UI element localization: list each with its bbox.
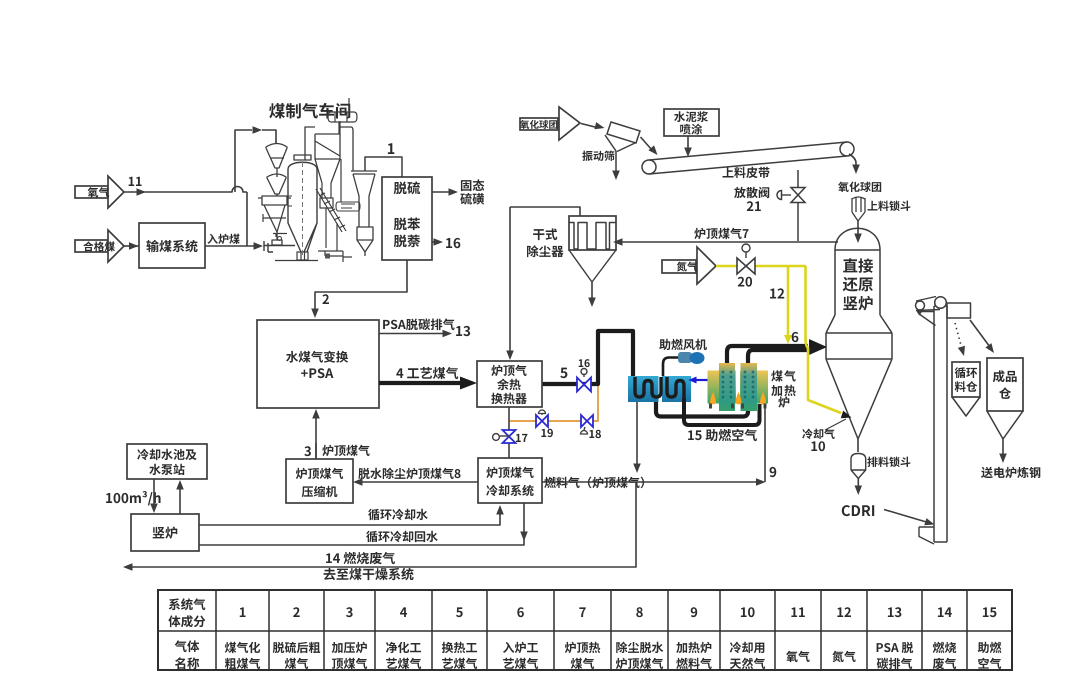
lock hopper 排料锁斗	[851, 454, 866, 479]
label 入炉煤	[207, 234, 239, 244]
label 放散阀	[734, 187, 769, 198]
table grid	[158, 590, 1012, 670]
box 炉顶气余热换热器	[477, 361, 542, 407]
wire hopper to furnace	[857, 221, 859, 236]
label 循环冷却水	[368, 509, 428, 520]
wire nitrogen yellow	[716, 265, 806, 268]
title 煤制气车间	[269, 103, 350, 119]
wire fuel gas 9	[542, 481, 758, 483]
wire 成品仓 out	[1002, 439, 1004, 456]
wire screen to belt	[641, 137, 653, 150]
label 氧化球团 right	[838, 182, 881, 192]
wire blue air arrow	[695, 379, 708, 381]
gasifier top drum	[328, 98, 357, 134]
label 3 炉顶煤气	[304, 446, 311, 456]
wire dust collector outlet down	[509, 207, 511, 352]
wire slurry to belt	[687, 136, 689, 151]
heater feet	[709, 404, 712, 409]
box 脱硫脱苯脱萘	[382, 177, 432, 260]
wire 13 PSA vent	[379, 333, 445, 335]
gasifier small ticks bottom-left	[263, 214, 287, 237]
vibrating screen 振动筛	[607, 122, 640, 143]
label 送电炉炼钢	[981, 467, 1040, 478]
pipe arrow into furnace	[809, 339, 827, 355]
gasifier feed box C	[258, 196, 291, 205]
wire oxygen down to coal feed	[246, 192, 248, 246]
wire fuel gas down	[636, 402, 638, 466]
valve 17	[503, 430, 516, 437]
label 1	[388, 143, 394, 154]
table header row	[169, 598, 206, 610]
label 去至煤干燥系统	[324, 568, 414, 580]
wire 1 from cyclone2 to desulf box	[365, 157, 402, 177]
label 排料锁斗	[867, 457, 910, 467]
gasifier bottom piping	[318, 223, 352, 262]
label 12	[770, 288, 784, 298]
pipe cyclone1 to cyclone2	[340, 127, 353, 171]
label 脱水除尘炉顶煤气8	[358, 468, 460, 480]
wire yellow cooling gas lower	[806, 338, 842, 413]
gasifier main vessel	[294, 155, 311, 160]
label 上料皮带	[723, 167, 770, 178]
cyclone 1 (middle)	[315, 134, 340, 183]
heater boxes 煤气加热炉	[708, 371, 737, 404]
label 5	[560, 368, 567, 379]
wire oxygen up to gasifier top	[235, 130, 252, 192]
bin 成品仓	[987, 358, 1023, 411]
gasifier lock hopper A	[266, 144, 287, 169]
label 16v	[579, 359, 590, 367]
pipe riser heater2 loop to exchanger	[656, 350, 808, 417]
flag 氧气	[75, 186, 108, 198]
label 循环冷却回水	[366, 531, 438, 542]
gasifier cone D	[264, 205, 285, 245]
wire 16 out	[432, 241, 437, 243]
flag 合格煤	[75, 240, 108, 252]
heater checker pattern	[722, 371, 725, 374]
wire 8 cooling to compressor	[359, 481, 478, 483]
label 20	[738, 277, 752, 287]
label 11	[129, 177, 142, 186]
wire CDRI out	[857, 479, 859, 489]
pipe riser heater1 to furnace	[727, 346, 808, 410]
label 2	[322, 294, 329, 304]
bucket elevator	[934, 306, 947, 542]
wire yellow 12 down	[787, 266, 790, 335]
wire 4 process gas (thick)	[379, 381, 460, 385]
conveyor belt 上料皮带	[642, 160, 656, 174]
label 17	[516, 434, 528, 442]
valve 16	[577, 378, 584, 392]
wire 循环冷却回水	[199, 503, 524, 545]
wire exchanger to cooling box	[508, 407, 510, 458]
wire 14 exhaust	[130, 483, 636, 567]
box 炉顶煤气冷却系统	[478, 458, 542, 503]
box 炉顶煤气压缩机	[286, 459, 353, 503]
wire furnace cone out	[857, 439, 859, 452]
wire 2 to PSA	[315, 260, 407, 311]
cyclone 2 (right)	[351, 171, 377, 256]
wire kiln to pond	[179, 486, 181, 514]
wire oxygen main	[124, 187, 247, 193]
valve 放散阀 21	[797, 170, 799, 241]
label 9	[770, 467, 777, 477]
label 13	[456, 326, 470, 336]
box 水泥浆喷涂	[664, 109, 719, 136]
wire to screen	[581, 124, 597, 128]
label 6	[792, 332, 799, 342]
label 冷却气 10	[802, 429, 834, 439]
wire 炉顶煤气7	[616, 241, 838, 243]
gasifier aux drum	[336, 202, 360, 211]
label 16	[446, 238, 460, 248]
wire belt discharge	[849, 154, 856, 167]
box 冷却水池及水泵站	[127, 444, 207, 479]
valve 19	[536, 415, 542, 427]
label 炉顶煤气7	[694, 228, 748, 239]
wire 3 compressor to PSA	[315, 415, 317, 459]
wire dotted to 循环料仓	[955, 323, 962, 349]
label 振动筛	[582, 151, 614, 161]
wire coal to box	[124, 245, 139, 247]
wire solid sulfur	[432, 191, 452, 193]
pipe 5 to serpentine	[542, 331, 633, 384]
dust collector 干式除尘器	[569, 216, 616, 250]
box 输煤系统	[139, 223, 205, 268]
label 4 工艺煤气	[396, 367, 458, 379]
wire dust out	[591, 282, 593, 300]
lock hopper 上料锁斗	[852, 197, 865, 221]
gasifier side nozzle	[288, 196, 292, 206]
wire orange	[510, 386, 598, 421]
wire to 成品仓	[970, 320, 990, 347]
label 助燃风机	[659, 339, 707, 350]
gasifier slag chute	[316, 188, 346, 232]
flag 氧化球团	[520, 118, 558, 130]
pipe loop serpentine to heater3	[684, 398, 760, 425]
label 14 燃烧废气	[326, 552, 395, 564]
label 19	[541, 429, 553, 437]
wire coal feed	[205, 245, 256, 247]
furnace 直接还原竖炉	[826, 228, 892, 439]
fan 助燃风机	[663, 358, 679, 377]
gasifier top pipe	[305, 127, 315, 160]
label 直接还原竖炉	[843, 258, 873, 273]
label CDRI	[842, 505, 874, 516]
heater flames	[710, 392, 716, 405]
label 21	[747, 201, 761, 211]
box 水煤气变换+PSA	[257, 320, 379, 408]
flag 氮气	[662, 260, 696, 273]
label 煤气加热炉	[771, 370, 795, 381]
box 竖炉	[131, 514, 199, 551]
label 干式除尘器	[533, 228, 557, 240]
bin 循环料仓	[952, 362, 980, 397]
label 15 助燃空气	[688, 429, 757, 441]
valve 18	[581, 415, 587, 427]
wire pond to kiln	[153, 479, 155, 507]
label 100m3/h	[106, 491, 160, 505]
label 18	[589, 430, 601, 438]
wire CDRI to elevator	[884, 510, 928, 523]
wire yellow cooling gas upper	[804, 266, 807, 340]
label 固态硫磺	[461, 179, 484, 191]
label PSA脱碳排气	[383, 319, 455, 331]
pipe serpentine	[635, 377, 661, 397]
label 燃料气（炉顶煤气）	[544, 477, 644, 489]
wire 9 heater down	[764, 404, 766, 482]
label 上料锁斗	[867, 201, 910, 211]
valve 20	[737, 258, 746, 274]
table body row	[175, 640, 200, 652]
wire 循环冷却水	[199, 511, 500, 525]
gasifier lock hopper B	[267, 174, 286, 194]
